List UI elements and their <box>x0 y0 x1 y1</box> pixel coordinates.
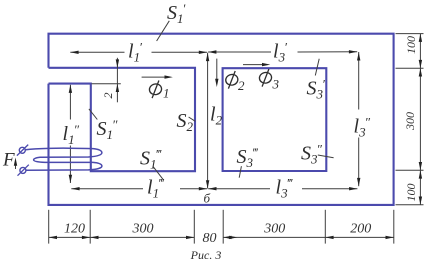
flux arrow Phi3 <box>243 63 280 92</box>
dimension l3' top yoke right <box>208 40 357 65</box>
label S3'' leader <box>301 142 334 167</box>
svg-text:200: 200 <box>350 222 371 237</box>
dimension 300 window height <box>403 68 422 170</box>
label S1' leader <box>157 1 186 41</box>
svg-text:100: 100 <box>404 36 418 54</box>
coil terminal top <box>17 145 28 156</box>
dimension 120 <box>49 222 90 240</box>
svg-text:2: 2 <box>238 78 245 93</box>
svg-text:S1′: S1′ <box>167 1 186 26</box>
flux arrow Phi1 <box>142 75 173 100</box>
air gap dimension 2 <box>92 58 121 103</box>
svg-text:300: 300 <box>263 222 285 237</box>
svg-text:F: F <box>2 150 15 171</box>
svg-text:3: 3 <box>272 77 280 92</box>
label S3' leader <box>307 59 326 102</box>
svg-text:80: 80 <box>203 231 217 246</box>
core outer outline <box>49 34 394 205</box>
label S1''' leader <box>140 147 163 180</box>
mmf F label and arrow <box>2 150 17 171</box>
core left window slot outline <box>49 68 196 171</box>
label S1'' leader <box>89 109 118 142</box>
coil winding wire <box>26 148 102 170</box>
bottom dims extension lines <box>49 210 394 244</box>
dimension 100 bottom yoke <box>404 170 422 205</box>
svg-text:300: 300 <box>403 112 417 131</box>
label S2 leader <box>177 110 196 134</box>
svg-text:2: 2 <box>101 93 115 99</box>
svg-text:б: б <box>204 191 211 206</box>
dimension 300 bottom left <box>90 222 194 240</box>
svg-text:300: 300 <box>132 222 154 237</box>
dimension 200 <box>325 222 394 240</box>
dimension 300 bottom right <box>223 222 325 240</box>
svg-text:120: 120 <box>64 222 85 237</box>
svg-text:S3′: S3′ <box>307 77 326 102</box>
dimension l2 middle limb <box>206 53 223 189</box>
dimension l3''' bottom yoke right <box>208 176 357 201</box>
svg-text:Рис. 3: Рис. 3 <box>190 248 222 262</box>
right dims extension lines <box>396 34 424 205</box>
core right window <box>223 68 327 171</box>
dimension l1' top yoke left <box>70 40 207 65</box>
coil terminal bottom <box>18 165 29 176</box>
dimension 100 top yoke <box>404 34 422 69</box>
dimension 80 middle limb width <box>203 231 217 246</box>
dimension l1''' bottom yoke left <box>71 176 207 201</box>
flux arrow Phi2 <box>215 59 245 93</box>
svg-text:1: 1 <box>163 86 170 101</box>
label S3''' leader <box>237 145 260 178</box>
dimension l3'' right limb <box>354 52 371 186</box>
dimension l1'' left limb <box>63 85 80 183</box>
svg-text:100: 100 <box>404 184 418 202</box>
